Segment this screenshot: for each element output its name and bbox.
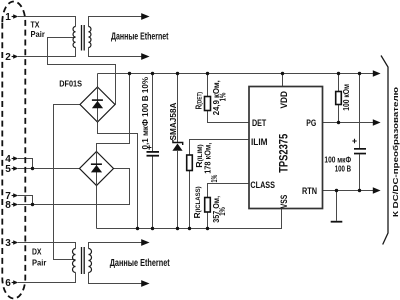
svg-text:100 В: 100 В <box>335 164 351 174</box>
svg-text:5: 5 <box>5 164 11 175</box>
svg-text:1%: 1% <box>218 92 228 101</box>
svg-text:RTN: RTN <box>302 186 317 196</box>
svg-text:PG: PG <box>306 118 316 128</box>
svg-text:ILIM: ILIM <box>251 137 268 147</box>
svg-text:DET: DET <box>252 118 267 128</box>
svg-text:1%: 1% <box>209 174 219 182</box>
svg-text:Pair: Pair <box>32 257 47 267</box>
svg-text:1%: 1% <box>217 207 227 216</box>
svg-text:VSS: VSS <box>279 195 289 209</box>
svg-text:178 кОм,: 178 кОм, <box>202 143 212 174</box>
svg-text:100 кОм: 100 кОм <box>341 84 351 111</box>
svg-text:DF01S: DF01S <box>59 79 82 89</box>
svg-text:VDD: VDD <box>279 91 289 109</box>
svg-text:TX: TX <box>31 19 40 29</box>
svg-text:Pair: Pair <box>31 29 46 39</box>
svg-text:Данные Ethernet: Данные Ethernet <box>110 258 170 269</box>
svg-text:CLASS: CLASS <box>250 180 275 190</box>
svg-text:2: 2 <box>5 52 11 63</box>
svg-text:8: 8 <box>5 200 11 211</box>
svg-text:0,1 мкФ 100 В 10%: 0,1 мкФ 100 В 10% <box>140 77 150 150</box>
svg-text:3: 3 <box>5 238 11 249</box>
svg-text:1: 1 <box>5 12 11 23</box>
svg-text:TPS2375: TPS2375 <box>278 133 290 172</box>
svg-text:SMAJ58A: SMAJ58A <box>168 103 178 141</box>
svg-text:DX: DX <box>32 247 42 257</box>
svg-text:К DC/DC-преобразователю: К DC/DC-преобразователю <box>391 86 400 217</box>
svg-text:6: 6 <box>5 278 11 289</box>
svg-text:Данные Ethernet: Данные Ethernet <box>111 31 169 42</box>
